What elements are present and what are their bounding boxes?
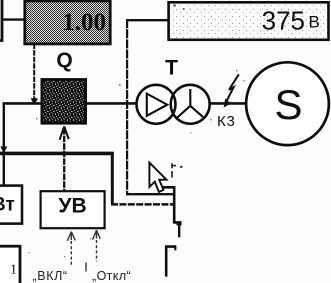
svg-text:Вт: Вт [0,195,15,216]
svg-text:„ВКЛ“: „ВКЛ“ [33,269,68,283]
svg-text:„Откл“: „Откл“ [92,269,131,283]
svg-text:375: 375 [262,6,305,36]
svg-text:К3: К3 [217,113,236,130]
svg-text:Q: Q [56,49,72,72]
svg-text:1.00: 1.00 [62,9,106,36]
svg-text:Т: Т [165,57,178,80]
svg-text:УВ: УВ [58,195,86,218]
svg-text:В: В [309,13,320,32]
svg-text:1: 1 [10,263,17,278]
svg-text:S: S [274,81,302,128]
